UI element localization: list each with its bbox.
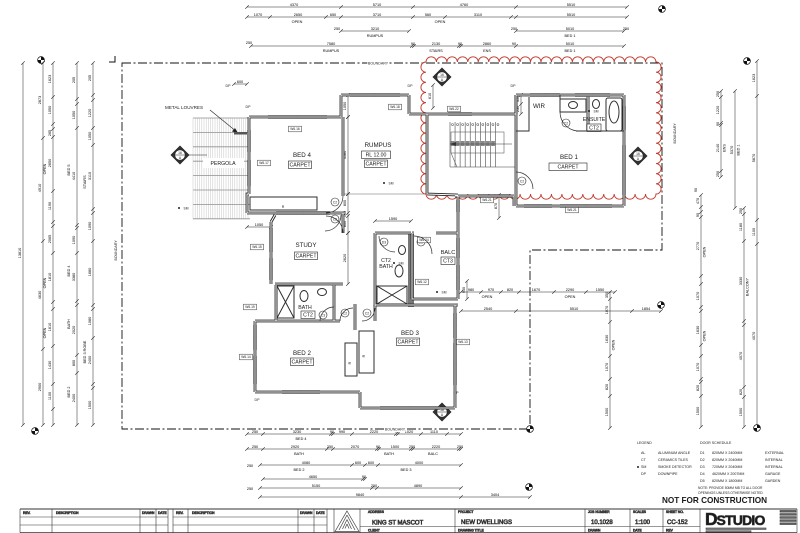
svg-text:2020: 2020 — [72, 326, 76, 334]
svg-text:BED 4: BED 4 — [67, 266, 71, 277]
svg-text:2220: 2220 — [370, 430, 378, 434]
svg-text:NOT FOR CONSTRUCTION: NOT FOR CONSTRUCTION — [662, 496, 767, 505]
svg-text:820: 820 — [507, 288, 513, 292]
svg-text:BED 1: BED 1 — [565, 34, 576, 38]
svg-text:OPEN: OPEN — [612, 339, 616, 350]
svg-text:BED 2: BED 2 — [293, 350, 311, 357]
svg-text:ADDRESS: ADDRESS — [368, 510, 385, 514]
svg-text:DP: DP — [511, 84, 517, 88]
svg-text:STAIRS: STAIRS — [83, 175, 87, 189]
svg-text:1500: 1500 — [391, 445, 399, 449]
svg-text:90: 90 — [696, 213, 700, 217]
svg-text:4620MM X 2007MM: 4620MM X 2007MM — [712, 472, 744, 476]
svg-text:90: 90 — [411, 42, 415, 46]
svg-text:90: 90 — [362, 475, 366, 479]
svg-text:1100: 1100 — [48, 392, 52, 400]
svg-text:3230: 3230 — [293, 430, 301, 434]
svg-text:W6.16: W6.16 — [290, 127, 300, 131]
svg-text:265: 265 — [48, 130, 52, 136]
svg-text:DRAWN: DRAWN — [300, 511, 313, 515]
svg-text:560: 560 — [425, 13, 431, 17]
svg-text:R: R — [362, 354, 366, 357]
svg-text:BATH: BATH — [384, 452, 394, 456]
svg-text:CARPET: CARPET — [397, 340, 419, 346]
svg-text:2860: 2860 — [483, 42, 491, 46]
svg-text:R: R — [348, 361, 352, 364]
svg-text:REV: REV — [666, 529, 674, 533]
svg-text:OPEN: OPEN — [43, 163, 47, 174]
svg-text:205: 205 — [88, 75, 92, 81]
svg-text:600: 600 — [237, 80, 243, 84]
svg-text:OPEN: OPEN — [703, 330, 707, 341]
svg-text:4070: 4070 — [752, 332, 756, 340]
svg-text:RUMPUS: RUMPUS — [365, 142, 392, 149]
svg-text:BOUNDARY: BOUNDARY — [368, 61, 389, 65]
svg-text:250: 250 — [247, 464, 253, 468]
svg-text:2130: 2130 — [432, 42, 440, 46]
svg-text:DATE: DATE — [633, 529, 642, 533]
svg-text:2873: 2873 — [38, 96, 42, 104]
svg-text:600: 600 — [368, 461, 374, 465]
svg-text:D3: D3 — [700, 465, 705, 469]
svg-text:BED 3: BED 3 — [401, 330, 419, 337]
svg-text:1500: 1500 — [605, 408, 609, 416]
svg-text:C2: C2 — [365, 311, 369, 315]
svg-text:90: 90 — [458, 42, 462, 46]
svg-text:3210: 3210 — [371, 27, 379, 31]
svg-text:13810: 13810 — [18, 248, 22, 259]
svg-text:205: 205 — [72, 77, 76, 83]
svg-text:870: 870 — [494, 203, 498, 209]
svg-text:DESCRIPTION: DESCRIPTION — [56, 511, 79, 515]
svg-text:980: 980 — [468, 288, 474, 292]
svg-text:JOB NUMBER: JOB NUMBER — [588, 510, 610, 514]
svg-text:3110: 3110 — [88, 172, 92, 180]
svg-text:820: 820 — [739, 389, 743, 395]
svg-text:250: 250 — [511, 27, 517, 31]
svg-text:OPEN: OPEN — [565, 295, 576, 299]
svg-text:OPEN: OPEN — [292, 20, 303, 24]
svg-text:CERAMICS TILES: CERAMICS TILES — [658, 458, 688, 462]
svg-text:CARPET: CARPET — [557, 165, 579, 171]
svg-text:250: 250 — [334, 27, 340, 31]
svg-text:DP: DP — [226, 84, 232, 88]
svg-text:16: 16 — [636, 152, 640, 156]
svg-text:1070: 1070 — [605, 306, 609, 314]
svg-text:970: 970 — [488, 288, 494, 292]
svg-text:5510: 5510 — [567, 3, 575, 7]
svg-text:INTERNAL: INTERNAL — [765, 465, 783, 469]
svg-text:BED 3 ROBE: BED 3 ROBE — [83, 340, 87, 363]
svg-text:250: 250 — [247, 487, 253, 491]
svg-text:W6.19: W6.19 — [245, 305, 255, 309]
svg-text:1220: 1220 — [716, 106, 720, 114]
svg-text:2400: 2400 — [72, 394, 76, 402]
svg-text:3404: 3404 — [491, 493, 499, 497]
svg-text:2920: 2920 — [291, 445, 299, 449]
svg-text:1050: 1050 — [255, 223, 263, 227]
svg-text:OPEN: OPEN — [482, 295, 493, 299]
svg-text:BALC: BALC — [441, 250, 456, 256]
svg-text:650: 650 — [330, 13, 336, 17]
svg-text:2290: 2290 — [566, 288, 574, 292]
svg-text:DESCRIPTION: DESCRIPTION — [192, 511, 215, 515]
svg-text:820MM X 2400MM: 820MM X 2400MM — [712, 451, 742, 455]
svg-text:OPEN: OPEN — [43, 327, 47, 338]
svg-text:INTERNAL: INTERNAL — [765, 458, 783, 462]
svg-text:DATE: DATE — [316, 511, 325, 515]
svg-text:BED 4: BED 4 — [296, 437, 307, 441]
svg-text:7580: 7580 — [327, 42, 335, 46]
svg-text:720MM X 2040MM: 720MM X 2040MM — [712, 465, 742, 469]
svg-text:STUDY: STUDY — [296, 242, 317, 249]
svg-text:STAIRS: STAIRS — [429, 49, 443, 53]
svg-text:AL: AL — [641, 451, 645, 455]
svg-text:2650: 2650 — [294, 13, 302, 17]
svg-text:SM: SM — [594, 110, 599, 114]
svg-text:DOOR SCHEDULE: DOOR SCHEDULE — [700, 441, 732, 445]
svg-text:800: 800 — [72, 360, 76, 366]
svg-text:250: 250 — [246, 41, 252, 45]
svg-text:1630: 1630 — [605, 335, 609, 343]
svg-text:DATE: DATE — [158, 511, 167, 515]
svg-text:W6.21: W6.21 — [567, 208, 577, 212]
svg-text:W6.21: W6.21 — [482, 198, 492, 202]
svg-text:2770: 2770 — [696, 242, 700, 250]
svg-text:16: 16 — [440, 73, 444, 77]
svg-text:CARPET: CARPET — [295, 254, 317, 260]
svg-text:4890: 4890 — [414, 484, 422, 488]
svg-text:PERGOLA: PERGOLA — [210, 161, 236, 167]
svg-text:OPEN: OPEN — [703, 246, 707, 257]
svg-text:250: 250 — [327, 445, 333, 449]
svg-text:NEW DWELLINGS: NEW DWELLINGS — [461, 520, 512, 526]
svg-text:820MM X 2040MM: 820MM X 2040MM — [712, 458, 742, 462]
svg-text:D5: D5 — [700, 479, 705, 483]
svg-text:BED 5: BED 5 — [67, 165, 71, 176]
svg-text:SM: SM — [641, 465, 646, 469]
svg-text:DRAWN: DRAWN — [588, 529, 601, 533]
svg-text:1050: 1050 — [72, 111, 76, 119]
svg-text:1100: 1100 — [752, 228, 756, 236]
svg-text:BOUNDARY: BOUNDARY — [114, 240, 118, 261]
svg-text:1050: 1050 — [48, 106, 52, 114]
svg-text:950: 950 — [462, 287, 466, 293]
svg-text:SM: SM — [184, 207, 189, 211]
svg-text:800: 800 — [343, 200, 347, 206]
svg-text:2070: 2070 — [351, 445, 359, 449]
svg-text:SM: SM — [389, 182, 394, 186]
svg-text:350: 350 — [605, 292, 609, 298]
svg-text:BATH: BATH — [379, 264, 393, 270]
svg-text:250: 250 — [623, 27, 629, 31]
svg-text:LEGEND: LEGEND — [637, 441, 652, 445]
svg-text:1070: 1070 — [696, 292, 700, 300]
svg-text:BATH: BATH — [67, 319, 71, 329]
svg-text:1623: 1623 — [48, 75, 52, 83]
svg-text:4630: 4630 — [38, 291, 42, 299]
svg-text:820: 820 — [696, 385, 700, 391]
svg-text:ENS: ENS — [483, 49, 491, 53]
svg-text:DP: DP — [255, 398, 261, 402]
svg-text:BATH: BATH — [294, 452, 304, 456]
svg-text:1110: 1110 — [430, 430, 438, 434]
svg-text:5870: 5870 — [752, 154, 756, 162]
svg-text:1190: 1190 — [48, 202, 52, 210]
svg-text:REV.: REV. — [176, 511, 184, 515]
svg-text:2650: 2650 — [48, 159, 52, 167]
svg-text:2620: 2620 — [343, 254, 347, 262]
svg-text:1500: 1500 — [696, 407, 700, 415]
svg-text:RUMPUS: RUMPUS — [367, 34, 384, 38]
svg-text:1090: 1090 — [72, 236, 76, 244]
svg-text:5370: 5370 — [730, 146, 734, 154]
svg-text:2900: 2900 — [38, 383, 42, 391]
svg-text:820MM X 1800MM: 820MM X 1800MM — [712, 479, 742, 483]
svg-text:250: 250 — [371, 484, 377, 488]
svg-text:2400: 2400 — [88, 356, 92, 364]
svg-text:W6.22: W6.22 — [449, 107, 459, 111]
svg-text:600: 600 — [355, 461, 361, 465]
svg-text:4760: 4760 — [460, 3, 468, 7]
svg-text:250: 250 — [409, 445, 415, 449]
svg-text:DP: DP — [641, 472, 647, 476]
svg-text:1500: 1500 — [739, 408, 743, 416]
svg-text:1:100: 1:100 — [635, 520, 651, 526]
svg-text:CARPET: CARPET — [365, 162, 387, 168]
svg-text:5710: 5710 — [373, 3, 381, 7]
svg-text:W6.18: W6.18 — [390, 105, 400, 109]
svg-text:BED 2: BED 2 — [294, 468, 305, 472]
svg-text:DP: DP — [408, 84, 414, 88]
svg-text:DP: DP — [246, 105, 252, 109]
svg-text:1070: 1070 — [254, 13, 262, 17]
svg-text:90: 90 — [376, 445, 380, 449]
svg-text:D1: D1 — [700, 451, 705, 455]
svg-text:610: 610 — [428, 93, 432, 99]
svg-text:BED 3: BED 3 — [401, 468, 412, 472]
svg-text:D4: D4 — [700, 472, 705, 476]
svg-text:BOUNDARY: BOUNDARY — [673, 123, 677, 144]
svg-text:OPEN: OPEN — [43, 277, 47, 288]
svg-text:2540: 2540 — [484, 307, 492, 311]
svg-text:90: 90 — [694, 188, 698, 192]
svg-text:GARDEN: GARDEN — [765, 479, 781, 483]
svg-text:4070: 4070 — [739, 352, 743, 360]
svg-text:1180: 1180 — [739, 223, 743, 231]
svg-text:1020: 1020 — [405, 430, 413, 434]
svg-text:16: 16 — [178, 151, 182, 155]
svg-text:OPEN: OPEN — [435, 20, 446, 24]
svg-text:9840: 9840 — [356, 493, 364, 497]
svg-text:4000: 4000 — [415, 461, 423, 465]
svg-text:5010: 5010 — [566, 42, 574, 46]
svg-text:METAL LOUVRES: METAL LOUVRES — [165, 105, 203, 110]
svg-text:2140: 2140 — [716, 144, 720, 152]
svg-text:BATH: BATH — [298, 305, 312, 311]
svg-text:820: 820 — [605, 384, 609, 390]
svg-text:1550: 1550 — [596, 288, 604, 292]
svg-text:2220: 2220 — [432, 445, 440, 449]
svg-text:SCALES: SCALES — [633, 510, 647, 514]
svg-text:BALC: BALC — [428, 452, 438, 456]
svg-text:W6.13: W6.13 — [458, 340, 468, 344]
svg-text:BED 2: BED 2 — [67, 387, 71, 398]
svg-text:KING ST MASCOT: KING ST MASCOT — [372, 521, 424, 527]
svg-text:ENSUITE: ENSUITE — [583, 117, 606, 123]
svg-text:1500: 1500 — [88, 401, 92, 409]
svg-text:WIR: WIR — [533, 103, 546, 110]
svg-text:PROJECT: PROJECT — [458, 510, 473, 514]
svg-text:CARPET: CARPET — [289, 163, 311, 169]
svg-text:250: 250 — [252, 445, 258, 449]
svg-text:470: 470 — [696, 198, 700, 204]
svg-text:2065: 2065 — [48, 235, 52, 243]
svg-text:W6.12: W6.12 — [417, 280, 427, 284]
svg-text:W6.14: W6.14 — [241, 355, 251, 359]
svg-text:ALUMINUM ANGLE: ALUMINUM ANGLE — [658, 451, 691, 455]
svg-text:250: 250 — [716, 91, 720, 97]
svg-text:1220: 1220 — [88, 109, 92, 117]
svg-text:W6.15: W6.15 — [252, 245, 262, 249]
svg-text:BOUNDARY: BOUNDARY — [385, 427, 406, 431]
svg-text:1630: 1630 — [696, 326, 700, 334]
svg-text:5010: 5010 — [566, 27, 574, 31]
svg-text:3380: 3380 — [72, 273, 76, 281]
svg-text:4080: 4080 — [302, 461, 310, 465]
svg-text:90: 90 — [512, 42, 516, 46]
svg-text:BED 1: BED 1 — [560, 154, 578, 161]
svg-text:1430: 1430 — [48, 361, 52, 369]
svg-text:CLIENT: CLIENT — [368, 529, 380, 533]
svg-text:RL 12.00: RL 12.00 — [366, 153, 387, 159]
svg-text:SMOKE DETECTOR: SMOKE DETECTOR — [658, 465, 692, 469]
svg-text:CT2: CT2 — [303, 313, 313, 319]
svg-text:DRAWN: DRAWN — [142, 511, 155, 515]
svg-text:1050: 1050 — [343, 102, 347, 110]
svg-text:5510: 5510 — [567, 13, 575, 17]
svg-text:90: 90 — [330, 430, 334, 434]
svg-text:1080: 1080 — [88, 317, 92, 325]
svg-text:C2: C2 — [333, 200, 337, 204]
svg-text:10.1028: 10.1028 — [591, 520, 613, 526]
svg-text:CT3: CT3 — [443, 259, 453, 265]
svg-text:5510: 5510 — [570, 307, 578, 311]
svg-text:CT: CT — [641, 458, 647, 462]
svg-text:1680: 1680 — [88, 268, 92, 276]
svg-text:90: 90 — [716, 122, 720, 126]
svg-text:1810: 1810 — [48, 273, 52, 281]
svg-text:SHEET NO.: SHEET NO. — [666, 510, 684, 514]
svg-text:BED 1: BED 1 — [565, 49, 576, 53]
svg-text:250: 250 — [739, 208, 743, 214]
svg-text:R: R — [282, 205, 285, 209]
svg-text:DRAWING TITLE: DRAWING TITLE — [458, 529, 484, 533]
svg-text:1050: 1050 — [88, 132, 92, 140]
svg-text:EXTERNAL: EXTERNAL — [765, 451, 784, 455]
svg-text:3110: 3110 — [474, 13, 482, 17]
svg-text:D: D — [705, 509, 717, 529]
svg-text:4370: 4370 — [290, 3, 298, 7]
svg-text:RUMPUS: RUMPUS — [323, 49, 340, 53]
svg-text:250: 250 — [252, 430, 258, 434]
svg-text:1854: 1854 — [642, 307, 650, 311]
svg-text:1590: 1590 — [389, 217, 397, 221]
svg-text:250: 250 — [716, 171, 720, 177]
svg-text:3710: 3710 — [373, 13, 381, 17]
svg-text:4650: 4650 — [309, 475, 317, 479]
svg-text:1623: 1623 — [752, 74, 756, 82]
svg-text:1070: 1070 — [605, 363, 609, 371]
svg-text:4410: 4410 — [72, 172, 76, 180]
svg-text:1610: 1610 — [48, 323, 52, 331]
svg-text:BED 1: BED 1 — [737, 145, 741, 156]
svg-text:C2: C2 — [520, 179, 524, 183]
svg-text:4910: 4910 — [38, 184, 42, 192]
svg-text:W6.17: W6.17 — [259, 161, 269, 165]
svg-text:CC-152: CC-152 — [667, 520, 688, 526]
svg-text:1070: 1070 — [696, 363, 700, 371]
svg-text:STUDIO: STUDIO — [717, 512, 766, 528]
svg-text:1670: 1670 — [532, 288, 540, 292]
svg-text:REV.: REV. — [23, 511, 31, 515]
svg-text:3330: 3330 — [739, 277, 743, 285]
svg-text:D2: D2 — [700, 458, 705, 462]
svg-text:D3: D3 — [382, 240, 386, 244]
svg-text:5150: 5150 — [312, 484, 320, 488]
svg-text:BED 4: BED 4 — [293, 152, 311, 159]
svg-text:CARPET: CARPET — [291, 360, 313, 366]
svg-text:BALCONY: BALCONY — [746, 277, 750, 296]
svg-text:OPENINGS UNLESS OTHERWISE NOTE: OPENINGS UNLESS OTHERWISE NOTED — [698, 491, 763, 495]
svg-text:GARAGE: GARAGE — [765, 472, 781, 476]
svg-text:1090: 1090 — [88, 222, 92, 230]
svg-text:990: 990 — [339, 430, 345, 434]
svg-text:DOWNPIPE: DOWNPIPE — [658, 472, 678, 476]
svg-text:250: 250 — [457, 445, 463, 449]
svg-text:SM: SM — [442, 291, 447, 295]
svg-text:NOTE: PROVIDE 50MM MB TO ALL D: NOTE: PROVIDE 50MM MB TO ALL DOOR — [698, 486, 763, 490]
svg-text:ENS: ENS — [723, 144, 727, 152]
